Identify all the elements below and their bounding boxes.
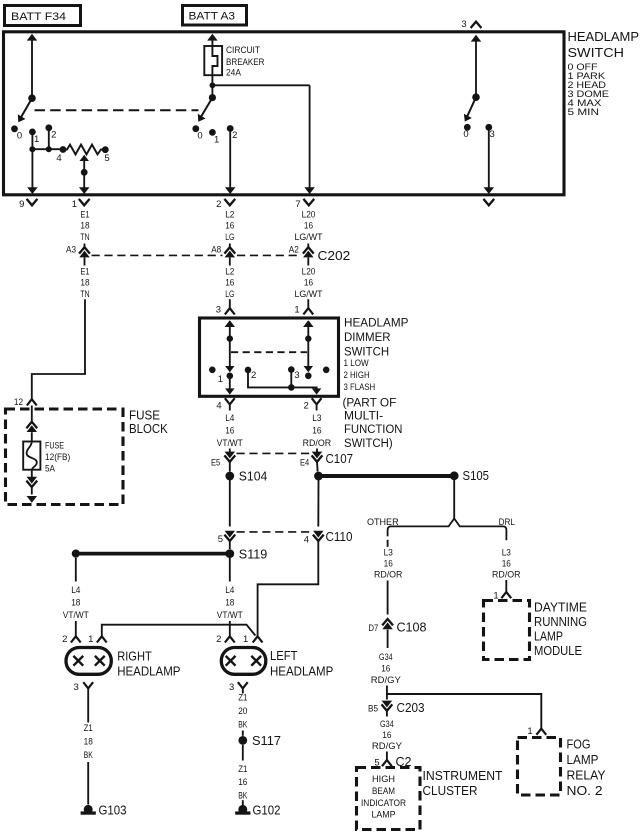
svg-text:18: 18 [84, 737, 93, 748]
svg-text:S104: S104 [239, 470, 267, 484]
svg-text:2: 2 [51, 130, 56, 141]
svg-text:0: 0 [17, 131, 22, 142]
svg-text:1: 1 [72, 199, 77, 210]
svg-text:HEADLAMP: HEADLAMP [344, 316, 408, 330]
svg-text:G34: G34 [379, 652, 393, 663]
svg-text:4: 4 [56, 153, 61, 164]
svg-text:1: 1 [214, 134, 219, 145]
svg-text:C107: C107 [326, 452, 354, 466]
svg-text:RIGHT: RIGHT [117, 649, 152, 663]
svg-text:L20: L20 [302, 209, 316, 220]
svg-text:16: 16 [312, 425, 321, 436]
svg-text:1: 1 [527, 726, 532, 737]
svg-text:FUNCTION: FUNCTION [344, 422, 402, 436]
svg-text:3: 3 [490, 129, 495, 140]
svg-text:2: 2 [232, 130, 237, 141]
svg-text:16: 16 [384, 559, 393, 570]
svg-text:RD/OR: RD/OR [374, 570, 403, 581]
svg-text:BREAKER: BREAKER [226, 57, 265, 68]
svg-text:LEFT: LEFT [270, 649, 298, 663]
svg-text:RELAY: RELAY [567, 768, 607, 782]
svg-text:A8: A8 [211, 244, 221, 255]
svg-text:L4: L4 [225, 413, 234, 424]
svg-text:1: 1 [493, 590, 498, 601]
svg-text:BK: BK [238, 790, 248, 801]
svg-text:2: 2 [251, 370, 256, 381]
svg-text:MODULE: MODULE [534, 644, 582, 658]
svg-text:BK: BK [238, 720, 248, 731]
svg-text:RD/OR: RD/OR [303, 438, 332, 449]
svg-text:16: 16 [382, 730, 391, 741]
svg-text:C110: C110 [326, 530, 353, 544]
svg-text:S117: S117 [252, 734, 281, 748]
svg-text:2: 2 [304, 400, 309, 411]
svg-text:HEADLAMP: HEADLAMP [117, 664, 180, 678]
svg-text:CIRCUIT: CIRCUIT [226, 45, 260, 56]
svg-text:E1: E1 [80, 266, 89, 277]
svg-text:5A: 5A [45, 464, 56, 475]
svg-text:NO. 2: NO. 2 [567, 784, 603, 798]
svg-text:VT/WT: VT/WT [63, 610, 89, 621]
svg-text:16: 16 [381, 663, 390, 674]
svg-text:SWITCH): SWITCH) [344, 436, 393, 450]
svg-text:2: 2 [216, 199, 221, 210]
svg-text:RD/OR: RD/OR [492, 570, 521, 581]
svg-text:1: 1 [218, 374, 223, 385]
svg-text:2: 2 [216, 634, 221, 645]
svg-text:CLUSTER: CLUSTER [423, 784, 478, 798]
svg-text:B5: B5 [368, 704, 378, 715]
svg-text:S119: S119 [239, 547, 268, 561]
svg-text:VT/WT: VT/WT [217, 438, 243, 449]
svg-text:7: 7 [295, 199, 300, 210]
svg-text:HIGH: HIGH [372, 774, 395, 785]
svg-text:20: 20 [238, 706, 247, 717]
svg-text:E5: E5 [211, 457, 220, 468]
svg-text:3: 3 [229, 682, 234, 693]
svg-text:C202: C202 [318, 249, 351, 263]
svg-text:C108: C108 [397, 621, 427, 635]
svg-text:1 LOW: 1 LOW [344, 358, 369, 368]
svg-text:DAYTIME: DAYTIME [534, 601, 587, 615]
svg-text:A3: A3 [66, 244, 76, 255]
svg-text:HEADLAMP: HEADLAMP [270, 664, 333, 678]
svg-text:18: 18 [80, 278, 89, 289]
svg-text:FUSE: FUSE [45, 441, 64, 452]
svg-text:RD/GY: RD/GY [372, 741, 403, 752]
svg-text:VT/WT: VT/WT [217, 610, 243, 621]
svg-text:RUNNING: RUNNING [534, 615, 587, 629]
svg-text:16: 16 [225, 221, 234, 232]
svg-text:5 MIN: 5 MIN [568, 106, 600, 117]
svg-text:LG/WT: LG/WT [295, 232, 323, 243]
svg-text:L2: L2 [225, 209, 234, 220]
svg-text:L4: L4 [225, 585, 234, 596]
svg-text:L20: L20 [302, 266, 316, 277]
svg-text:FUSE: FUSE [129, 409, 160, 423]
svg-text:INDICATOR: INDICATOR [361, 798, 406, 809]
svg-text:C203: C203 [397, 701, 425, 715]
svg-text:0: 0 [463, 129, 468, 140]
svg-text:1: 1 [34, 134, 39, 145]
svg-text:1: 1 [243, 634, 248, 645]
svg-text:1: 1 [88, 634, 93, 645]
svg-text:3: 3 [294, 370, 299, 381]
svg-text:G103: G103 [99, 804, 127, 818]
svg-text:MULTI-: MULTI- [344, 408, 383, 422]
svg-text:16: 16 [225, 425, 234, 436]
svg-text:24A: 24A [226, 68, 242, 79]
svg-text:0: 0 [197, 130, 202, 141]
svg-text:4: 4 [216, 400, 221, 411]
svg-text:12: 12 [14, 397, 23, 408]
svg-text:Z1: Z1 [84, 723, 93, 734]
svg-text:BLOCK: BLOCK [129, 422, 168, 436]
svg-text:TN: TN [80, 232, 89, 243]
svg-text:E4: E4 [300, 457, 309, 468]
svg-text:E1: E1 [80, 209, 89, 220]
svg-text:16: 16 [225, 278, 234, 289]
svg-text:LG: LG [225, 289, 234, 300]
svg-text:L2: L2 [225, 266, 234, 277]
svg-text:3: 3 [216, 304, 221, 315]
svg-text:Z1: Z1 [238, 764, 247, 775]
svg-text:18: 18 [71, 598, 80, 609]
svg-text:OTHER: OTHER [367, 517, 399, 528]
svg-text:18: 18 [225, 598, 234, 609]
svg-text:L3: L3 [384, 547, 393, 558]
svg-text:LG: LG [225, 232, 234, 243]
svg-text:FOG: FOG [567, 737, 591, 751]
svg-text:G102: G102 [253, 804, 281, 818]
svg-text:LAMP: LAMP [372, 810, 396, 821]
svg-text:TN: TN [80, 289, 89, 300]
svg-text:D7: D7 [368, 623, 378, 634]
svg-text:9: 9 [19, 199, 24, 210]
svg-text:12(FB): 12(FB) [45, 452, 70, 463]
svg-text:L4: L4 [71, 585, 80, 596]
svg-text:16: 16 [304, 221, 313, 232]
svg-text:A2: A2 [289, 244, 299, 255]
svg-text:BATT F34: BATT F34 [11, 11, 66, 23]
svg-text:RD/GY: RD/GY [371, 675, 402, 686]
svg-text:INSTRUMENT: INSTRUMENT [423, 769, 503, 783]
svg-text:3 FLASH: 3 FLASH [344, 382, 376, 392]
svg-text:G34: G34 [380, 719, 394, 730]
svg-text:1: 1 [294, 304, 299, 315]
svg-text:2: 2 [62, 634, 67, 645]
svg-text:DIMMER: DIMMER [344, 330, 391, 344]
svg-text:3: 3 [461, 19, 466, 30]
svg-text:S105: S105 [463, 469, 490, 483]
svg-text:16: 16 [304, 278, 313, 289]
svg-text:L3: L3 [312, 413, 321, 424]
svg-text:L3: L3 [502, 547, 511, 558]
svg-text:SWITCH: SWITCH [568, 45, 625, 60]
svg-text:BEAM: BEAM [372, 786, 395, 797]
svg-text:LAMP: LAMP [534, 630, 563, 644]
svg-text:Z1: Z1 [238, 693, 247, 704]
svg-text:SWITCH: SWITCH [344, 344, 389, 358]
svg-text:5: 5 [104, 153, 109, 164]
svg-text:18: 18 [80, 221, 89, 232]
svg-text:2 HIGH: 2 HIGH [344, 370, 370, 380]
svg-text:BK: BK [84, 750, 94, 761]
svg-text:16: 16 [502, 559, 511, 570]
svg-text:3: 3 [74, 682, 79, 693]
svg-text:LAMP: LAMP [567, 753, 599, 767]
svg-text:4: 4 [304, 535, 309, 546]
svg-text:BATT A3: BATT A3 [189, 11, 236, 23]
svg-text:HEADLAMP: HEADLAMP [568, 29, 640, 44]
svg-text:DRL: DRL [499, 517, 515, 528]
svg-text:16: 16 [238, 777, 247, 788]
svg-text:LG/WT: LG/WT [295, 289, 323, 300]
svg-text:5: 5 [218, 534, 223, 545]
